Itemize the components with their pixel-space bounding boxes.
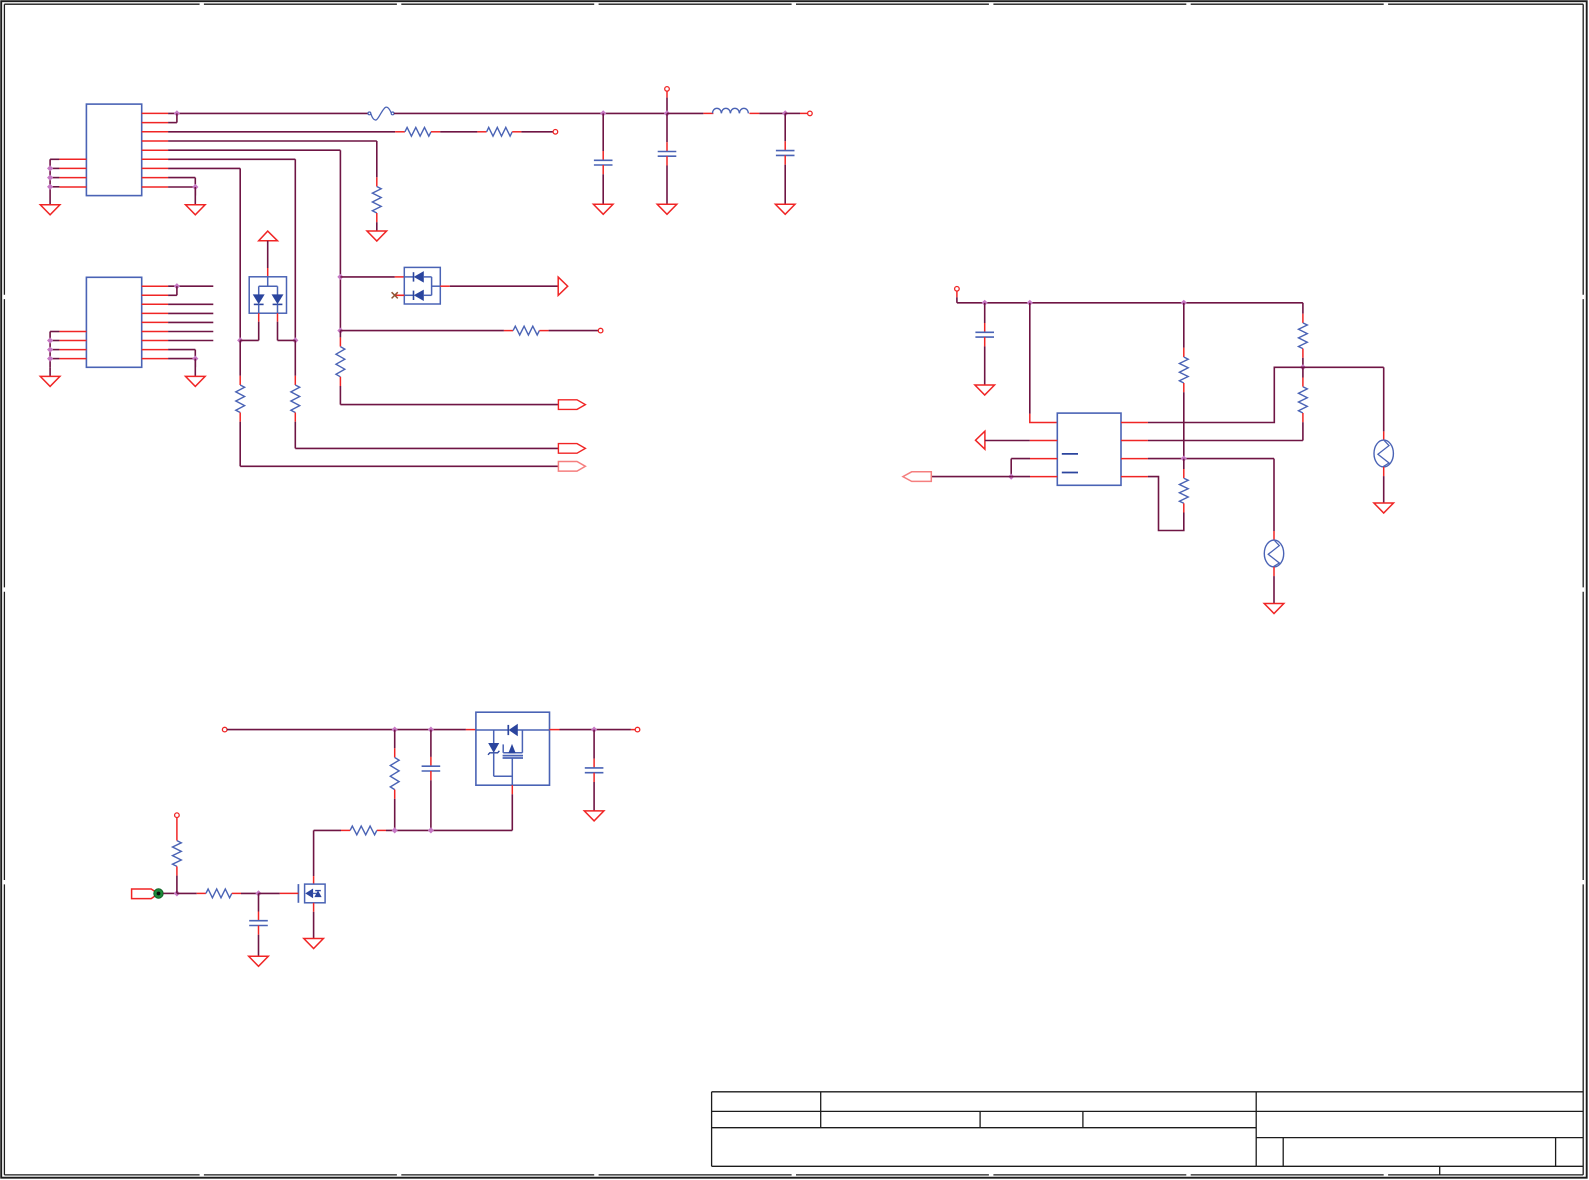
no-connect x D2 pin	[392, 292, 405, 298]
wire U1 pin8-9 to ground	[168, 178, 195, 196]
resistor R2	[487, 127, 513, 136]
wire U2 pin2 tie-up	[168, 286, 177, 295]
inductor L1	[712, 108, 748, 113]
port VIN	[132, 889, 159, 899]
IC U2 right pin stubs	[142, 286, 168, 358]
junction dot rail-C6	[428, 727, 434, 733]
power arrow VCC	[259, 231, 278, 277]
wire R1-R2	[431, 131, 487, 133]
mosfet Q2	[298, 884, 325, 903]
junction dot U1 pin9	[192, 184, 198, 190]
IC U1 left pin stubs	[59, 159, 86, 187]
dual diode D1	[249, 277, 286, 313]
wire node A to lamp DS1	[1303, 367, 1384, 440]
wire pin2 tie-up	[168, 113, 177, 122]
IC U1 right pin stubs	[142, 113, 168, 187]
terminal TP4	[598, 328, 603, 333]
lamp DS1	[1374, 440, 1393, 467]
resistor R13	[390, 730, 399, 831]
resistor R6	[336, 331, 345, 386]
resistor R12	[341, 826, 386, 835]
wire DS2 to ground	[1273, 567, 1275, 604]
terminal TP1 top	[665, 87, 670, 114]
wire net4	[168, 141, 377, 177]
wire vin rail	[227, 729, 466, 731]
junction dot rail-R13	[392, 727, 398, 733]
junction dot net1-C3	[782, 110, 788, 116]
terminal TP6	[222, 727, 227, 732]
junction dot fb-C6	[428, 827, 434, 833]
junction dot net5-D2	[337, 274, 343, 280]
wire U2 pin8-9 to ground	[168, 350, 195, 368]
wire R10 to node	[1183, 392, 1185, 458]
wire to lamp DS2	[1273, 459, 1275, 540]
ground C2	[657, 204, 677, 214]
resistor R15	[206, 889, 232, 898]
resistor R7	[513, 326, 539, 335]
resistor R4	[236, 340, 245, 421]
ground DS2	[1264, 604, 1284, 614]
ground DS1	[1374, 503, 1394, 513]
IC U3 left pin stubs	[1030, 441, 1058, 477]
junction dot rail-C4	[982, 300, 988, 306]
port OUT4	[903, 472, 931, 482]
wire R5 to port	[295, 422, 558, 449]
wire Q1 out	[550, 729, 636, 731]
wire net1 to L1	[667, 112, 713, 114]
port OUT1	[558, 400, 585, 410]
wire pin L4 to port	[931, 476, 1030, 478]
terminal TP8	[175, 813, 180, 818]
wire D2 anode feed	[340, 276, 404, 278]
junction dot net1-C1	[600, 110, 606, 116]
capacitor C2	[658, 113, 677, 204]
capacitor C3	[776, 113, 795, 204]
wire R7 to terminal	[539, 330, 598, 332]
junction dot gate node2	[255, 890, 261, 896]
lamp DS2	[1264, 540, 1283, 567]
connector dot green	[154, 889, 163, 898]
mosfet module Q1	[476, 712, 550, 785]
wire R9 to pin R2	[1148, 422, 1303, 440]
capacitor C1	[594, 113, 613, 204]
port OUT3	[558, 462, 585, 472]
wire DS1 to ground	[1383, 467, 1385, 503]
wire vrail top	[957, 291, 1303, 303]
wire pin R3 row	[1148, 458, 1274, 460]
wire R6 to port	[340, 386, 558, 405]
wire U2 left bus	[50, 332, 59, 368]
wire L1 to output	[749, 112, 785, 114]
junction dot net1	[174, 110, 180, 116]
resistor R11	[1179, 459, 1188, 513]
junction dot rail-R10	[1181, 300, 1187, 306]
wire U1 left bus	[50, 159, 59, 195]
wire net7	[168, 168, 240, 340]
ground Q2	[304, 939, 324, 949]
junction dot net5-R6	[337, 328, 343, 334]
junction dots U1 left bus	[47, 165, 53, 190]
wire net1 row	[168, 112, 368, 114]
junction dots U2 left bus	[47, 337, 53, 361]
wire R2 to terminal	[512, 131, 553, 133]
input arrow IN1	[558, 277, 568, 295]
wire gate stub	[259, 892, 299, 894]
resistor R1	[405, 127, 431, 136]
wire R3 to ground	[376, 222, 378, 231]
junction dot out-C7	[591, 727, 597, 733]
wire net3 row	[168, 131, 405, 133]
IC U1 body	[86, 104, 141, 196]
wire port to node	[163, 892, 177, 894]
ground U1 right	[186, 187, 206, 215]
junction dot node A	[1300, 364, 1306, 370]
wire node to R15	[177, 892, 206, 894]
ground C4	[975, 385, 995, 395]
terminal TP3	[553, 130, 558, 135]
wire net6	[168, 159, 295, 340]
ground U1 left	[40, 196, 60, 215]
terminal TP7	[635, 727, 640, 732]
ground U2 left	[40, 367, 60, 386]
resistor R3	[372, 177, 381, 222]
wire D1 left lead	[240, 313, 259, 340]
wire to terminal TP2	[785, 112, 807, 114]
junction dot gate node1	[174, 890, 180, 896]
ground R3	[367, 231, 387, 241]
junction dot net6-D1	[292, 337, 298, 343]
terminal TP5	[955, 287, 960, 292]
capacitor C7	[585, 730, 604, 811]
resistor R8	[1299, 303, 1308, 358]
capacitor C5	[249, 893, 268, 956]
ground C7	[584, 811, 604, 821]
title block (empty)	[712, 1092, 1584, 1175]
wire R8 to node A	[1302, 358, 1304, 368]
capacitor C4	[975, 303, 994, 385]
wire D2 output	[440, 285, 558, 287]
ground C3	[775, 204, 795, 214]
wire Q1 bottom pin	[386, 785, 512, 830]
junction dot pin L4	[1008, 474, 1014, 480]
wire U2 stub nets	[168, 286, 213, 340]
wire node A to pin R1	[1148, 367, 1303, 422]
output arrow U3-L2	[976, 431, 985, 449]
IC U2 body	[86, 277, 141, 367]
wire rail into Q1	[466, 729, 476, 731]
resistor R10	[1179, 303, 1188, 392]
junction dot R3 row	[1181, 456, 1187, 462]
ground C1	[593, 204, 613, 214]
IC U3 right pin stubs	[1121, 423, 1148, 477]
wire pin L3 jog	[1011, 459, 1030, 477]
port OUT2	[558, 444, 585, 454]
junction dot U2 pin1	[174, 283, 180, 289]
fuse F1	[368, 107, 394, 120]
wire net5	[168, 150, 340, 330]
resistor R5	[291, 340, 300, 421]
dual diode D2	[404, 267, 440, 304]
wire net1 after fuse	[394, 112, 667, 114]
ground C5	[249, 956, 269, 966]
wire U3 pin L1 feed	[1030, 303, 1058, 423]
ground U2 right	[186, 359, 206, 387]
wire D1 right lead	[278, 313, 296, 340]
junction dot U2 pin9	[192, 356, 198, 362]
terminal TP2	[808, 111, 813, 116]
junction dot rail-U3	[1027, 300, 1033, 306]
wire net R7 row	[340, 330, 513, 332]
wire R4 to port	[240, 422, 558, 467]
resistor R14	[173, 818, 182, 894]
junction dot fb-R13	[392, 827, 398, 833]
junction dot net1-C2	[664, 110, 670, 116]
capacitor C6	[422, 730, 441, 831]
wire Q2 source to ground	[313, 903, 315, 939]
junction dot net7-D1	[237, 337, 243, 343]
wire R15 to gate node	[232, 892, 259, 894]
IC U3 body	[1057, 413, 1121, 485]
wire arrow to pin L2	[985, 440, 1030, 442]
resistor R9	[1299, 367, 1308, 422]
wire R11 loop to pin R4	[1148, 477, 1184, 531]
IC U2 left pin stubs	[59, 332, 86, 359]
wire R12 to Q2 drain	[314, 830, 341, 884]
